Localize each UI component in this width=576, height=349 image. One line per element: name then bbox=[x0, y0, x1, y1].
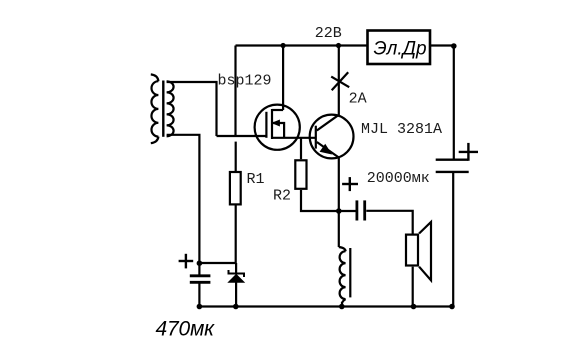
plus sign C2 bbox=[342, 177, 358, 191]
svg-text:bsp129: bsp129 bbox=[218, 72, 272, 89]
source bottom line bbox=[272, 137, 316, 139]
wire gate horizontal bbox=[217, 135, 266, 137]
transistor Q2 MJL3281A bbox=[310, 115, 354, 159]
base bar bbox=[315, 126, 317, 149]
svg-text:Эл.Др: Эл.Др bbox=[373, 39, 426, 60]
wire cap plus to diode horizontal bbox=[199, 262, 236, 264]
core bbox=[162, 81, 164, 137]
wire R1 bottom bbox=[235, 206, 237, 264]
left coil hook bottom bbox=[151, 137, 159, 144]
node rail-right corner bbox=[451, 43, 457, 49]
gate bar bbox=[265, 112, 267, 138]
capacitor C1 470uF bbox=[190, 276, 211, 283]
node bottom C1 bbox=[197, 304, 203, 310]
MOSFET Q1 bsp129 bbox=[255, 105, 316, 150]
wire emitter down bbox=[338, 158, 340, 248]
wire C2 to speaker bbox=[366, 211, 412, 234]
svg-text:2A: 2A bbox=[349, 90, 367, 107]
collector diagonal bbox=[317, 115, 339, 131]
node emitter-R2-C2 bbox=[336, 208, 342, 214]
svg-text:470мк: 470мк bbox=[156, 318, 216, 341]
fuse F1 2A bbox=[331, 72, 349, 90]
node bottom VD1 bbox=[233, 304, 239, 310]
wire bottom rail bbox=[198, 305, 454, 307]
battery GB1 bbox=[436, 160, 469, 172]
wire C1 bottom bbox=[198, 284, 200, 307]
left coil hook top bbox=[151, 74, 159, 81]
svg-text:R2: R2 bbox=[273, 187, 291, 204]
node collector-rail bbox=[336, 43, 341, 48]
node bottom speaker bbox=[411, 304, 417, 310]
body arrow line bbox=[273, 123, 284, 138]
right coil bbox=[167, 81, 174, 136]
svg-text:20000мк: 20000мк bbox=[367, 170, 430, 187]
wire collector vertical to rail (through fuse) bbox=[338, 46, 340, 116]
plus sign C1 bbox=[179, 254, 194, 269]
wire transformer bottom lead bbox=[167, 135, 200, 263]
box El.Dr (electric drill) bbox=[368, 31, 431, 65]
wire transformer top lead to gate corner bbox=[167, 82, 217, 136]
inductor L1 bbox=[339, 247, 351, 307]
emitter diagonal bbox=[317, 142, 339, 158]
body circle bbox=[255, 105, 300, 150]
wire drain vertical to rail bbox=[282, 46, 284, 111]
wire left vertical from rail to gate crossing bbox=[234, 46, 236, 138]
node drain-rail bbox=[281, 43, 286, 48]
wire top rail bbox=[236, 44, 455, 46]
wire R2 bottom bbox=[301, 190, 339, 211]
wire right rail lower bbox=[452, 172, 454, 307]
wire emitter node to C2 bbox=[339, 210, 356, 212]
body circle bbox=[310, 115, 354, 159]
zener diode VD1 bbox=[229, 263, 245, 307]
wire R1 top bbox=[235, 142, 237, 171]
wire right rail upper bbox=[453, 46, 455, 160]
transformer T1 bbox=[151, 74, 174, 143]
resistor R2 bbox=[295, 160, 306, 189]
channel bar bbox=[271, 109, 273, 139]
capacitor C2 20000uF bbox=[357, 200, 365, 220]
resistor R1 bbox=[230, 172, 241, 204]
svg-text:MJL 3281A: MJL 3281A bbox=[361, 121, 442, 138]
wire C1 top bbox=[198, 263, 200, 274]
plus sign battery bbox=[459, 143, 478, 161]
node bottom right rail bbox=[449, 304, 455, 310]
node cap plus bbox=[197, 260, 203, 266]
drain lead bbox=[272, 109, 283, 111]
node bottom L1 bbox=[339, 304, 345, 310]
svg-text:22В: 22В bbox=[315, 25, 342, 42]
left coil bbox=[151, 81, 158, 136]
arrowhead bbox=[273, 120, 280, 126]
core bbox=[349, 248, 351, 297]
svg-text:R1: R1 bbox=[247, 171, 265, 188]
speaker LS1 bbox=[406, 222, 431, 307]
wire R2 tap bbox=[300, 138, 302, 159]
emitter arrowhead bbox=[320, 145, 331, 154]
